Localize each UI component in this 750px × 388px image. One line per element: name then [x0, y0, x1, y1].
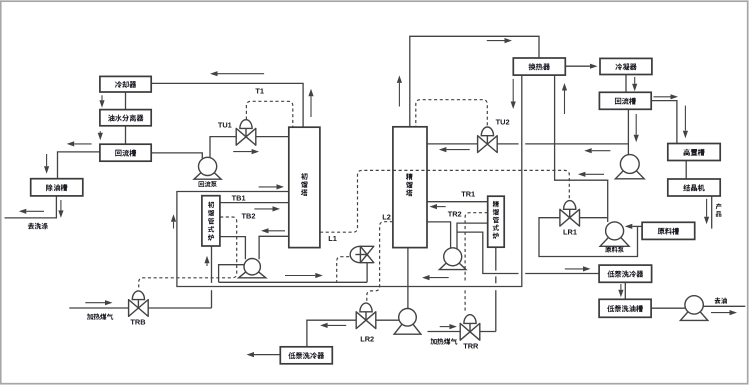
flow arrow feed to heat exchanger: [585, 173, 604, 175]
flow arrow heating gas TRR: [440, 326, 450, 328]
wire TRB gas riser to furnace1 (jump over feed line): [211, 246, 213, 283]
wire cooler to separator: [125, 92, 127, 110]
wire pump3 product line to naphthalene cooler (jump at x522): [457, 232, 519, 273]
box 除油槽: [31, 179, 83, 196]
wire pump2 side connection to drain header: [219, 265, 245, 283]
signal L1 dashed segment over column2: [393, 169, 427, 171]
wire TU2 to reflux pump2 line (jump at x522): [497, 143, 519, 145]
box 低萘洗油槽: [599, 299, 651, 317]
valve LR1: [564, 201, 576, 210]
label 加热煤气 TRB: [87, 313, 93, 319]
svg-text:L2: L2: [382, 213, 391, 222]
flow arrow feed into column1: [259, 186, 277, 188]
wire pump3 discharge to furnace2: [457, 223, 488, 249]
flow arrow reflux tank2 to high tank: [654, 96, 671, 98]
pump P4 reflux2: [615, 164, 644, 179]
flow arrow reflux tank2 to pump: [635, 114, 637, 135]
valve drain (vertical, dome left): [350, 246, 360, 262]
svg-text:TU2: TU2: [496, 118, 510, 127]
wire reflux pump to TU1: [210, 137, 236, 159]
wire TRR to riser: [480, 331, 496, 333]
signal L2 to LR2: [367, 222, 393, 302]
wire column2 bottoms to pump3: [427, 222, 451, 249]
wire condenser to reflux tank2: [625, 75, 627, 93]
svg-text:TU1: TU1: [218, 121, 232, 130]
label 去油: [714, 298, 720, 304]
wire reflux tank2 to high tank: [651, 101, 677, 144]
flow arrow heat exchanger down: [512, 79, 514, 102]
wire TRB to riser: [148, 307, 212, 309]
flow arrow gas riser furnace1: [206, 263, 208, 266]
svg-text:TR1: TR1: [461, 190, 475, 199]
valve LR2: [360, 303, 372, 312]
flow arrow up to heat exchanger: [564, 91, 566, 115]
box 换热器: [513, 58, 565, 75]
flow arrow reflux tank to deoil tank: [74, 143, 91, 145]
label 回流泵: [199, 181, 205, 187]
box 冷凝器: [600, 58, 652, 74]
pump P3 column2 bottoms: [439, 257, 466, 270]
label 产品: [716, 203, 722, 209]
furnace2 精馏管式炉: [488, 196, 505, 247]
wire deoil tank outlet: [5, 196, 57, 218]
flow arrow column1 overhead up: [310, 96, 312, 117]
wire LR2 to pump5: [376, 319, 399, 321]
wire feed tank to feed pump (arrow): [632, 225, 642, 227]
svg-text:TB1: TB1: [232, 193, 246, 202]
pump P2 column1 bottoms: [239, 267, 266, 278]
valve TU1: [240, 120, 252, 129]
valve TU2: [481, 127, 493, 136]
box 油水分离器: [100, 110, 151, 126]
svg-text:TRR: TRR: [463, 342, 479, 351]
wire naphthalene cooler to wash oil tank: [624, 282, 626, 299]
box 低萘洗冷器: [599, 265, 652, 282]
box 回流槽2: [599, 92, 651, 109]
wire reflux tank to reflux pump: [151, 153, 202, 159]
pump P6 wash oil: [680, 305, 707, 321]
wire separator to reflux tank: [125, 126, 127, 144]
flow arrow into naphthalene cooler: [565, 268, 583, 270]
svg-text:TR2: TR2: [448, 209, 462, 218]
wire reflux tank2 to pump4: [627, 109, 629, 155]
flow arrow feed line up: [173, 222, 175, 229]
wire crystallizer product out: [711, 196, 713, 229]
box 冷却器: [100, 76, 151, 92]
box 结晶机: [668, 179, 720, 196]
wire wash oil tank to pump6: [651, 307, 685, 309]
wire column1 top to cooler: [151, 83, 303, 127]
signal TU2 loop: [416, 100, 488, 127]
wire LR1 to feed pump junction: [580, 217, 608, 219]
wire reflux tank to deoil tank: [58, 152, 101, 179]
flow arrow cooler to wash oil tank: [620, 284, 622, 290]
svg-text:LR1: LR1: [563, 227, 577, 236]
flow arrow TU1 outlet: [233, 151, 251, 153]
wire TR1 furnace2 to column2: [427, 201, 487, 203]
flow arrow reflux line left: [592, 150, 611, 152]
signal T1 loop to TU1: [246, 101, 292, 127]
box 回流槽: [100, 144, 151, 161]
box 高置槽: [668, 144, 720, 161]
wire heat exchanger to condenser (arrow): [565, 65, 590, 67]
valve TRR: [464, 315, 476, 324]
flow arrow to cooler: [218, 73, 265, 75]
flow arrow deoil tank outlet: [60, 200, 62, 210]
wire TB1 furnace1 to column1: [220, 202, 289, 204]
flow arrow column2 overhead up: [398, 83, 400, 107]
wire column2 top to heat exchanger: [410, 36, 539, 127]
flow arrow into high tank: [684, 106, 686, 131]
wire heat exchanger left drop / long feed line to column1: [177, 75, 522, 286]
label 加热煤气 TRR: [430, 338, 436, 344]
wire TU1 to column1: [256, 136, 289, 138]
pump 原料泵 P5: [600, 231, 629, 246]
wire LR1 recirculation loop: [539, 218, 638, 257]
flow arrow LR2 to bottom cooler: [328, 324, 347, 326]
wire heat exchanger right drop to feed junction: [555, 75, 608, 222]
flow arrow feed line left: [430, 277, 449, 279]
wire pump6 outlet: [703, 305, 745, 307]
box 原料槽: [642, 222, 695, 239]
flow arrow TU2 to column2: [446, 149, 469, 151]
wire LR2 to bottom cooler: [307, 320, 356, 347]
flow arrow TR1 into column2: [437, 206, 446, 208]
svg-text:LR2: LR2: [360, 334, 374, 343]
svg-text:TB2: TB2: [242, 212, 256, 221]
furnace1 初馏管式炉: [202, 196, 220, 246]
signal drain valve dome: [337, 257, 350, 282]
wire column2 bottom drop to pump5: [407, 248, 409, 309]
wire column2 side to TU2: [427, 143, 478, 145]
flow arrow cooler to separator: [101, 95, 103, 100]
signal L1 to LR1: [320, 170, 569, 232]
wire pump2 discharge to furnace1: [220, 237, 245, 260]
flow arrow column1 bottoms: [269, 230, 286, 232]
flow arrow heating gas TRB: [85, 302, 105, 304]
wire heating gas to TRB: [69, 307, 129, 309]
pump 回流泵 P1: [194, 166, 221, 179]
wire drain valve drop: [366, 263, 368, 283]
svg-text:L1: L1: [328, 234, 337, 243]
flow arrow drain header: [285, 275, 315, 277]
valve TRB: [132, 291, 144, 300]
svg-text:T1: T1: [255, 87, 264, 96]
label 原料泵: [605, 247, 611, 253]
flow arrow overhead to heat exchanger: [487, 40, 505, 42]
flow arrow oil out: [711, 312, 730, 314]
flow arrow into deoil tank: [46, 154, 48, 166]
flow arrow to washing: [26, 210, 44, 212]
flow arrow condenser to reflux tank2: [634, 77, 636, 84]
box 低萘洗冷器2: [280, 347, 332, 364]
flow arrow product out: [706, 199, 708, 217]
wire bottom cooler outlet (arrow): [254, 354, 280, 356]
label 去洗涤: [28, 223, 34, 229]
wire drain header line A: [219, 281, 368, 283]
flow arrow TB1 into column1: [254, 208, 272, 210]
wire heating gas to TRR: [428, 331, 461, 333]
wire column1 bottoms to pump2: [259, 236, 289, 259]
signal TR2 to TRR (gap at feed line): [465, 213, 488, 282]
wire TRR gas riser to furnace2 (jumps): [495, 247, 497, 271]
pump P7 column2 bottoms transfer: [394, 317, 421, 334]
column1 初馏塔: [289, 127, 320, 247]
wire high tank to crystallizer: [685, 161, 687, 180]
svg-text:TRB: TRB: [130, 317, 145, 326]
flow arrow separator to reflux tank: [99, 131, 101, 133]
column2 精馏塔: [393, 127, 427, 248]
signal TB2 to TRB: [139, 217, 237, 290]
